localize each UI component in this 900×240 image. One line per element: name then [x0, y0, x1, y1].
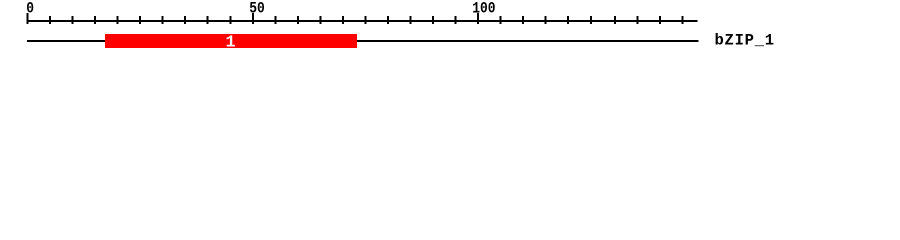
svg-text:1: 1	[225, 33, 235, 52]
svg-text:0: 0	[26, 0, 34, 18]
svg-text:bZIP_1: bZIP_1	[715, 32, 775, 50]
svg-text:50: 50	[249, 0, 265, 18]
svg-text:100: 100	[472, 0, 495, 18]
